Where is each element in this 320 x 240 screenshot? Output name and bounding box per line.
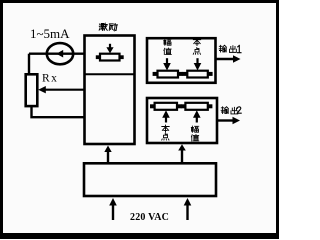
AC input arrow left — [109, 198, 117, 220]
label 输出1 — [219, 45, 241, 52]
potentiometer 幅值 (block1 left) — [153, 58, 183, 77]
frame border — [0, 0, 279, 3]
label 本点 (block2 left) — [162, 125, 169, 140]
wiper arrow: from excitation block to resistor — [38, 86, 85, 93]
output 1 arrow — [216, 55, 241, 63]
svg-text:1~5mA: 1~5mA — [30, 26, 70, 41]
wire: down from source line to resistor top — [28, 54, 30, 75]
power supply block — [84, 163, 216, 196]
current source — [47, 43, 73, 64]
potentiometer 本点 (block1 right) — [182, 58, 212, 77]
label 激励 — [99, 23, 117, 30]
divider line in excitation block — [85, 73, 135, 75]
block 1 (upper right) — [147, 38, 216, 83]
wire: current source line from left corner through source to excitation block — [29, 53, 85, 55]
svg-text:Rx: Rx — [42, 73, 58, 85]
label 输出2 — [221, 107, 241, 114]
arrow: power to excitation block — [104, 146, 111, 163]
resistor Rx — [26, 74, 38, 106]
label 本点 (block1 right) — [193, 38, 200, 54]
AC input arrow right — [184, 198, 192, 220]
arrow: power to block 2 — [178, 144, 186, 162]
wire: resistor bottom to excitation block — [32, 106, 86, 117]
potentiometer 幅值 (block2 right) — [181, 103, 213, 123]
potentiometer (excitation) — [96, 44, 124, 61]
svg-text:220 VAC: 220 VAC — [130, 212, 169, 223]
output 2 arrow — [217, 117, 240, 125]
label 幅值 (block2 right) — [191, 126, 199, 141]
label 幅值 (block1 left) — [164, 39, 172, 55]
block 2 (middle right) — [147, 98, 217, 143]
potentiometer 本点 (block2 left) — [150, 103, 182, 123]
block excitation — [85, 36, 135, 145]
